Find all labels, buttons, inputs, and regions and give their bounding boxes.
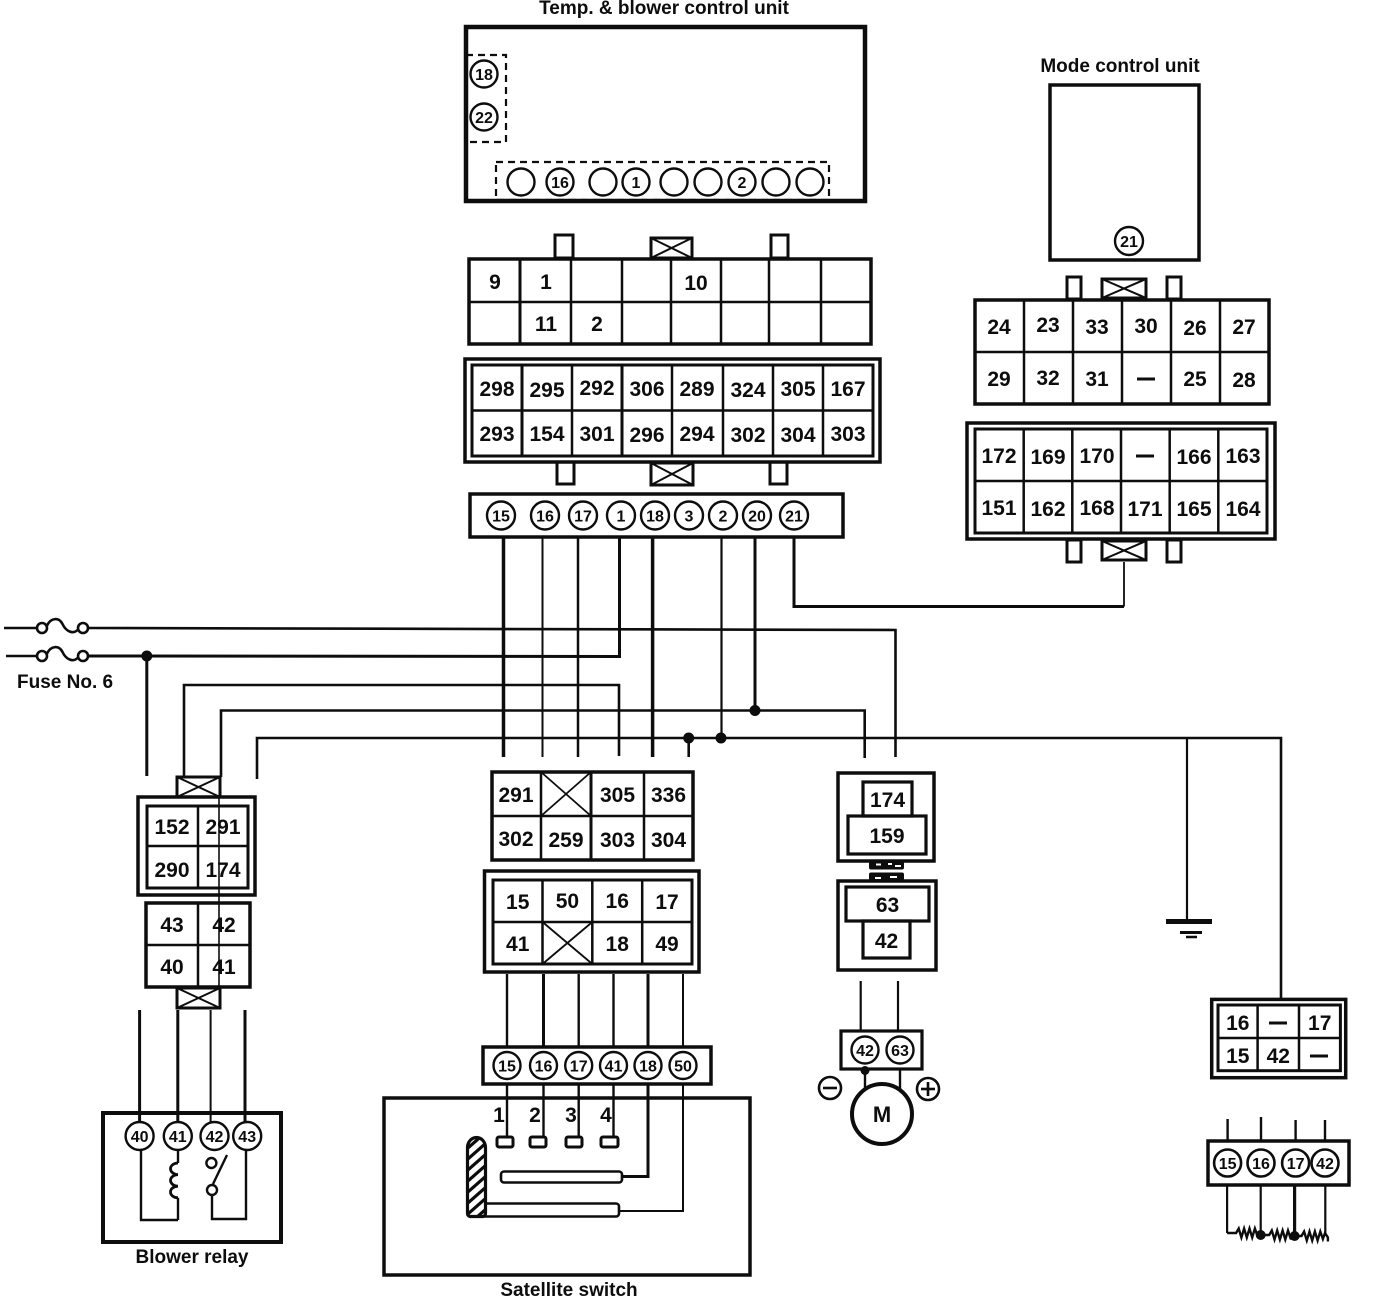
satellite connector SB block inner <box>493 880 692 964</box>
satellite pin strip box <box>483 1047 711 1084</box>
blower relay box <box>103 1113 281 1242</box>
svg-text:170: 170 <box>1079 445 1114 468</box>
svg-text:298: 298 <box>479 378 514 401</box>
svg-text:151: 151 <box>981 497 1016 520</box>
svg-text:17: 17 <box>570 1059 588 1076</box>
wire from pin 17 <box>577 537 580 757</box>
wire SB to strip pin 41 <box>612 974 614 1047</box>
wire pin 42 to motor <box>864 1069 866 1090</box>
svg-text:15: 15 <box>492 509 510 526</box>
svg-text:20: 20 <box>748 509 766 526</box>
pin 3 <box>675 502 703 530</box>
svg-text:2: 2 <box>738 175 747 192</box>
wire pin 17 lead <box>1293 1185 1296 1236</box>
relay coil <box>177 1150 179 1163</box>
svg-text:42: 42 <box>856 1043 874 1060</box>
terminal contact 2 <box>530 1137 546 1147</box>
svg-text:41: 41 <box>605 1059 623 1076</box>
pin 42 box <box>863 921 910 958</box>
blower motor <box>852 1084 912 1144</box>
svg-text:Mode control unit: Mode control unit <box>1040 56 1200 77</box>
svg-text:291: 291 <box>205 816 240 839</box>
pin 21 <box>1115 227 1143 255</box>
wire ground drop <box>1186 738 1188 919</box>
satellite connector SA block <box>492 772 693 860</box>
mode control unit box <box>1050 85 1199 260</box>
blower motor connector M1 outer <box>838 773 934 861</box>
svg-text:303: 303 <box>600 829 635 852</box>
keyway X cell <box>543 922 593 964</box>
svg-text:27: 27 <box>1232 316 1255 339</box>
wire: junction to relay connector pin 152 <box>145 656 148 776</box>
svg-text:33: 33 <box>1085 316 1108 339</box>
resistor connector block outer <box>1212 999 1346 1077</box>
terminal contact 1 <box>497 1137 513 1147</box>
svg-text:17: 17 <box>574 509 592 526</box>
svg-text:259: 259 <box>548 829 583 852</box>
wire from pin 20 <box>754 537 757 711</box>
mode connector MA block <box>975 300 1269 404</box>
svg-text:1: 1 <box>632 175 641 192</box>
terminal contact 3 <box>566 1137 582 1147</box>
svg-text:2: 2 <box>719 509 728 526</box>
relay switch contact upper <box>206 1158 216 1168</box>
svg-text:305: 305 <box>600 784 635 807</box>
svg-text:17: 17 <box>1308 1012 1331 1035</box>
blower resistor R2 <box>1261 1231 1294 1240</box>
svg-text:167: 167 <box>830 378 865 401</box>
svg-text:18: 18 <box>606 933 630 956</box>
wire from pin 16 <box>542 537 544 757</box>
wire SB to strip pin 16 <box>542 974 545 1047</box>
svg-text:10: 10 <box>684 272 707 295</box>
svg-text:15: 15 <box>1219 1156 1237 1173</box>
svg-text:294: 294 <box>679 423 714 446</box>
relay connector RA block inner <box>147 806 248 888</box>
svg-text:31: 31 <box>1085 368 1109 391</box>
svg-text:169: 169 <box>1030 446 1065 469</box>
svg-text:162: 162 <box>1030 498 1065 521</box>
junction dot motor negative <box>861 1066 870 1075</box>
svg-text:303: 303 <box>830 423 865 446</box>
pin 174 box <box>863 782 912 816</box>
pin circle a <box>508 169 535 196</box>
relay connector RA keyway X-tab top <box>177 777 220 797</box>
terminal contact 4 <box>601 1137 618 1147</box>
svg-text:296: 296 <box>629 424 664 447</box>
svg-text:164: 164 <box>1225 498 1260 521</box>
svg-text:17: 17 <box>1287 1156 1305 1173</box>
relay pin 42 <box>201 1122 229 1150</box>
svg-text:290: 290 <box>154 859 189 882</box>
relay connector RB block <box>146 903 250 987</box>
svg-text:42: 42 <box>1267 1045 1290 1068</box>
relay connector RB keyway X-tab bottom <box>177 988 220 1008</box>
motor pin box <box>841 1031 922 1069</box>
svg-text:15: 15 <box>498 1059 516 1076</box>
wire through-line <box>218 797 220 988</box>
svg-text:304: 304 <box>651 829 686 852</box>
svg-text:168: 168 <box>1079 497 1114 520</box>
mode connector MB tab right <box>1167 540 1181 562</box>
svg-text:25: 25 <box>1183 368 1207 391</box>
pin 15 <box>1214 1150 1241 1177</box>
svg-text:16: 16 <box>606 890 629 913</box>
pin circle e <box>763 169 790 196</box>
svg-text:18: 18 <box>646 509 664 526</box>
mode connector MB block inner <box>975 429 1267 533</box>
pin 20 <box>743 502 771 530</box>
ground symbol <box>1166 919 1212 924</box>
junction dot R2/R3 <box>1290 1231 1300 1241</box>
pin dash <box>1136 455 1154 458</box>
pin 16 <box>547 169 574 196</box>
relay pin 40 <box>126 1122 154 1150</box>
junction dot W5 stub <box>683 733 694 744</box>
svg-text:41: 41 <box>169 1129 187 1146</box>
svg-text:43: 43 <box>238 1129 256 1146</box>
connector C2 block outer <box>465 359 880 462</box>
svg-text:9: 9 <box>489 271 501 294</box>
connector C2 tab left <box>557 462 574 484</box>
wire pin40 to coil bottom <box>141 1150 178 1220</box>
wire from pin 2 <box>720 537 722 738</box>
svg-text:21: 21 <box>785 509 803 526</box>
svg-text:Blower relay: Blower relay <box>136 1247 249 1268</box>
blower resistor R1 <box>1227 1229 1261 1238</box>
connector interlock teeth <box>869 862 904 881</box>
mode connector MA tab right <box>1167 277 1181 299</box>
junction dot W5 / pin 2 <box>716 733 727 744</box>
wire to relay pin 42 <box>210 1010 212 1123</box>
svg-text:324: 324 <box>730 379 765 402</box>
svg-text:306: 306 <box>629 378 664 401</box>
strip pin 41 <box>600 1052 627 1079</box>
svg-text:42: 42 <box>206 1129 224 1146</box>
svg-text:289: 289 <box>679 378 714 401</box>
wire stub to resistor pin 42 <box>1324 1120 1326 1141</box>
svg-text:40: 40 <box>160 956 183 979</box>
svg-text:3: 3 <box>565 1104 577 1127</box>
svg-text:63: 63 <box>891 1043 909 1060</box>
svg-text:42: 42 <box>875 930 898 953</box>
svg-text:41: 41 <box>506 933 530 956</box>
relay connector RA block outer <box>138 797 255 895</box>
pin 21 <box>780 502 808 530</box>
svg-text:50: 50 <box>674 1059 692 1076</box>
dashed pin row box <box>496 162 829 200</box>
wire stub to resistor pin 16 <box>1260 1117 1262 1141</box>
wire SB to strip pin 50 <box>682 974 684 1047</box>
wire stub to satellite connector 336 <box>687 738 690 757</box>
wire SB to strip pin 17 <box>578 974 580 1047</box>
svg-text:154: 154 <box>529 423 564 446</box>
wire W2: fuse F2 to pin 1 <box>88 537 620 657</box>
pin 2 <box>709 502 737 530</box>
wire SB to strip pin 15 <box>506 974 508 1047</box>
wire strip to terminal 4 <box>612 1084 614 1137</box>
svg-text:29: 29 <box>987 368 1010 391</box>
svg-text:166: 166 <box>1176 446 1211 469</box>
wire W1: fuse F1 to blower motor connector 174 <box>88 628 896 757</box>
pin circle b <box>590 169 617 196</box>
motor pin 63 <box>887 1037 914 1064</box>
wire from pin 15 <box>502 537 506 757</box>
plus terminal symbol <box>917 1078 939 1100</box>
strip pin 15 <box>494 1052 521 1079</box>
svg-text:41: 41 <box>212 956 236 979</box>
contact bar 2 <box>470 1204 619 1217</box>
pin dash <box>1137 378 1155 381</box>
wire pin 18 to contact bar 1 <box>622 1084 648 1177</box>
svg-text:301: 301 <box>579 423 614 446</box>
wire pin 63 to motor <box>899 1069 901 1092</box>
svg-text:22: 22 <box>475 110 493 127</box>
svg-text:292: 292 <box>579 377 614 400</box>
svg-text:172: 172 <box>981 445 1016 468</box>
connector C2 block inner <box>472 365 873 456</box>
wire strip to terminal 2 <box>542 1084 544 1137</box>
strip pin 50 <box>670 1052 697 1079</box>
pin 2 <box>729 169 756 196</box>
fuse F1 <box>37 623 47 633</box>
pin 16 <box>531 502 559 530</box>
wire stub to resistor pin 17 <box>1294 1120 1296 1141</box>
svg-text:165: 165 <box>1176 498 1211 521</box>
svg-text:49: 49 <box>655 933 678 956</box>
wire strip to terminal 1 <box>506 1084 508 1137</box>
svg-text:26: 26 <box>1183 317 1206 340</box>
switch lever (hatched) <box>460 1125 494 1232</box>
wire W4: relay pin 291 drop to blower motor connector 159 <box>221 711 865 778</box>
junction dot W4 / pin 20 <box>750 705 761 716</box>
temp & blower control unit box <box>466 27 865 201</box>
pin 17 <box>1282 1150 1309 1177</box>
wire to relay pin 40 <box>138 1010 141 1123</box>
connector C1 tab left <box>555 235 573 258</box>
svg-text:32: 32 <box>1036 367 1059 390</box>
strip pin 16 <box>530 1052 557 1079</box>
pin 1 <box>623 169 650 196</box>
svg-text:24: 24 <box>987 316 1011 339</box>
mode connector MA tab left <box>1067 277 1081 299</box>
strip pin 17 <box>565 1052 592 1079</box>
fuse F2 lead left <box>6 655 37 658</box>
resistor pin strip box <box>1208 1141 1349 1185</box>
svg-text:16: 16 <box>535 1059 553 1076</box>
svg-text:43: 43 <box>160 914 183 937</box>
dashed pin group box (pins 18,22) <box>466 55 506 142</box>
strip pin 18 <box>635 1052 662 1079</box>
svg-text:28: 28 <box>1232 369 1256 392</box>
svg-text:42: 42 <box>1316 1156 1334 1173</box>
svg-text:4: 4 <box>600 1104 612 1127</box>
keyway X cell <box>541 772 591 816</box>
svg-text:18: 18 <box>475 67 493 84</box>
wire M2 to motor pin 63 <box>897 981 899 1031</box>
svg-text:16: 16 <box>1252 1156 1270 1173</box>
svg-text:1: 1 <box>493 1104 505 1127</box>
svg-text:Temp. & blower control unit: Temp. & blower control unit <box>539 0 789 19</box>
svg-text:1: 1 <box>617 509 626 526</box>
relay pin 43 <box>233 1122 261 1150</box>
relay switch contact lower <box>207 1185 217 1195</box>
pin 159 box <box>848 816 926 854</box>
svg-text:17: 17 <box>655 891 678 914</box>
svg-text:40: 40 <box>131 1129 149 1146</box>
connector C1 tab right <box>771 235 788 258</box>
wire from pin 18 <box>651 537 655 757</box>
contact bar 1 <box>501 1172 622 1183</box>
pin 22 <box>471 104 498 131</box>
wire from pin 21 to mode control unit <box>794 537 1124 607</box>
pin circle f <box>797 169 824 196</box>
wire mode unit drop <box>1123 562 1125 607</box>
wire to relay pin 41 <box>176 1010 179 1123</box>
svg-text:Satellite switch: Satellite switch <box>500 1280 637 1298</box>
svg-text:15: 15 <box>506 891 530 914</box>
harness pin row box <box>470 494 843 537</box>
junction dot R1/R2 <box>1256 1230 1266 1240</box>
svg-text:18: 18 <box>639 1059 657 1076</box>
pin 18 <box>471 61 498 88</box>
blower motor connector M2 outer <box>838 881 936 970</box>
connector C2 keyway X-tab <box>651 463 693 485</box>
pin 1 <box>607 502 635 530</box>
svg-text:16: 16 <box>536 509 554 526</box>
svg-text:16: 16 <box>1226 1012 1249 1035</box>
pin 17 <box>569 502 597 530</box>
wire M2 to motor pin 42 <box>860 981 862 1031</box>
svg-text:30: 30 <box>1134 315 1157 338</box>
svg-text:174: 174 <box>870 789 905 812</box>
wire pin 42 lead <box>1324 1185 1326 1233</box>
svg-text:42: 42 <box>212 914 235 937</box>
pin circle d <box>695 169 722 196</box>
mode connector MB keyway X-tab <box>1102 541 1146 560</box>
svg-text:63: 63 <box>876 894 899 917</box>
motor pin 42 <box>852 1037 879 1064</box>
svg-text:Fuse No. 6: Fuse No. 6 <box>17 672 113 693</box>
fuse F1 lead left <box>4 627 37 630</box>
svg-text:M: M <box>873 1102 891 1127</box>
mode connector MA keyway X-tab <box>1102 279 1146 298</box>
wire switch to pin 43 <box>212 1150 246 1219</box>
svg-text:23: 23 <box>1036 314 1059 337</box>
junction dot fuse F2 / relay feed <box>141 651 152 662</box>
connector C2 tab right <box>770 462 787 484</box>
pin 63 box <box>846 887 929 921</box>
svg-text:16: 16 <box>551 175 569 192</box>
wire stub to resistor pin 15 <box>1226 1119 1228 1141</box>
svg-text:171: 171 <box>1127 498 1162 521</box>
svg-text:152: 152 <box>154 816 189 839</box>
svg-text:21: 21 <box>1120 234 1138 251</box>
svg-text:2: 2 <box>529 1104 541 1127</box>
wire pin 16 lead <box>1260 1185 1262 1235</box>
pin 15 <box>487 502 515 530</box>
svg-text:293: 293 <box>479 423 514 446</box>
connector C1 block (pins 9,1,10,11,2) <box>469 259 871 344</box>
wire strip to terminal 3 <box>578 1084 580 1137</box>
satellite switch box <box>384 1098 750 1275</box>
pin dash <box>1269 1022 1287 1025</box>
svg-text:159: 159 <box>869 825 904 848</box>
svg-text:50: 50 <box>556 890 579 913</box>
wire pin 50 to contact bar 2 <box>618 1084 683 1211</box>
pin 18 <box>641 502 669 530</box>
svg-text:2: 2 <box>591 313 603 336</box>
svg-text:3: 3 <box>685 509 694 526</box>
wire to relay pin 43 <box>244 1010 247 1123</box>
svg-text:1: 1 <box>540 271 552 294</box>
svg-text:304: 304 <box>780 424 815 447</box>
svg-text:163: 163 <box>1225 445 1260 468</box>
mode connector MB block outer <box>967 423 1275 539</box>
svg-text:302: 302 <box>730 424 765 447</box>
relay pin 41 <box>164 1122 192 1150</box>
relay switch blade <box>213 1155 227 1184</box>
wire SB to strip pin 18 <box>647 974 650 1047</box>
pin 16 <box>1248 1150 1275 1177</box>
minus terminal symbol <box>819 1077 841 1099</box>
blower resistor R3 <box>1295 1232 1328 1242</box>
connector C1 keyway X-tab <box>651 238 692 258</box>
svg-text:174: 174 <box>205 859 240 882</box>
mode connector MB tab left <box>1067 540 1081 562</box>
svg-text:305: 305 <box>780 378 815 401</box>
resistor connector block inner <box>1218 1005 1340 1071</box>
pin 42 <box>1312 1150 1339 1177</box>
satellite connector SB block outer <box>485 871 700 972</box>
pin circle c <box>661 169 688 196</box>
pin dash <box>1310 1055 1328 1058</box>
wire pin 15 lead <box>1226 1185 1228 1233</box>
svg-text:295: 295 <box>529 379 564 402</box>
wire W3: relay X-tab to satellite connector 305 <box>184 685 619 777</box>
svg-text:11: 11 <box>535 313 558 336</box>
fuse F2 (Fuse No. 6) <box>37 651 47 661</box>
svg-text:291: 291 <box>498 784 533 807</box>
svg-text:302: 302 <box>498 828 533 851</box>
svg-text:336: 336 <box>651 784 686 807</box>
svg-text:15: 15 <box>1226 1045 1250 1068</box>
wire W5: relay to resistor connector <box>257 738 1281 999</box>
